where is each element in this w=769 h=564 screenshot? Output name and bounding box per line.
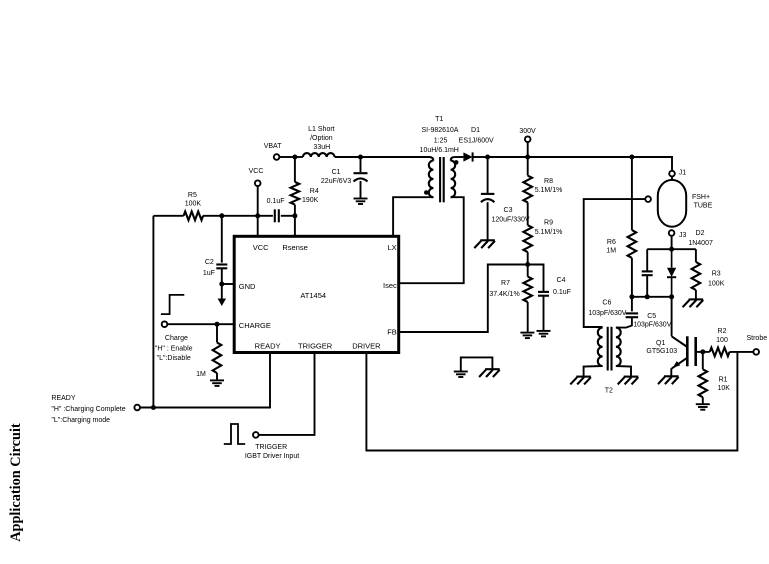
svg-text:100K: 100K <box>708 281 725 288</box>
wire R3 to ground <box>695 290 697 299</box>
transformer T1 secondary winding <box>451 161 456 198</box>
svg-text:103pF/630V: 103pF/630V <box>633 321 671 328</box>
svg-text:IGBT Driver Input: IGBT Driver Input <box>245 453 299 460</box>
svg-text:C4: C4 <box>557 277 566 284</box>
transistor Q1 GT5G103 <box>672 336 696 368</box>
svg-text:FSH+: FSH+ <box>692 194 710 201</box>
wire R9 to FB node <box>527 252 529 264</box>
junction GND node <box>219 282 224 287</box>
svg-text:1uF: 1uF <box>203 270 215 277</box>
terminal VCC <box>255 180 261 186</box>
Q1 emitter arrow <box>673 361 681 368</box>
svg-text:300V: 300V <box>519 128 536 135</box>
svg-text:C2: C2 <box>205 259 214 266</box>
svg-text:100: 100 <box>716 337 728 344</box>
svg-text:103pF/630V: 103pF/630V <box>588 310 626 317</box>
wire R4 to Rsense pin <box>294 205 296 236</box>
wire D1 to HV node <box>473 156 488 158</box>
resistor R1 <box>699 369 708 397</box>
inductor L1 <box>303 153 335 157</box>
svg-text:C6: C6 <box>602 299 611 306</box>
wire Q1 emitter to ground <box>670 368 673 375</box>
wire T1 secondary to D1 <box>455 156 464 158</box>
wire 1M to ground <box>216 373 218 380</box>
wire down to C5 <box>646 249 648 271</box>
wire down to C6 <box>631 297 633 312</box>
wire cap to Rsense node <box>281 215 295 217</box>
wire rail down to R8 <box>527 157 529 176</box>
wire GND stub to IC <box>222 283 233 285</box>
transformer T1 secondary entry <box>451 157 455 161</box>
svg-text:L1 Short: L1 Short <box>308 126 335 133</box>
svg-text:CHARGE: CHARGE <box>239 321 271 330</box>
ground earth of tie <box>454 372 468 378</box>
wire VBAT to node <box>279 156 295 158</box>
terminal J3 <box>669 230 675 236</box>
wire node down to R4 <box>294 157 296 182</box>
wire CHARGE input to pin <box>167 323 233 325</box>
wire R1 to ground <box>702 397 704 403</box>
phase dot T1 primary <box>424 190 429 195</box>
phase dot T1 secondary <box>454 160 459 165</box>
wire FB pin to divider node <box>399 265 528 333</box>
wire bottom row <box>632 296 672 298</box>
resistor R2 <box>710 348 730 357</box>
svg-text:R2: R2 <box>718 328 727 335</box>
wire T2 secondary top <box>584 326 603 328</box>
wire J1 to tube anode <box>671 176 673 180</box>
svg-text:190K: 190K <box>302 197 319 204</box>
resistor R6 <box>628 230 637 258</box>
capacitor 0.1uF (VCC decoupling) <box>275 209 279 222</box>
wire T1 secondary bottom to Isec pin <box>399 197 464 283</box>
wire down to 1M resistor <box>216 324 218 342</box>
ground under C4 <box>537 331 551 337</box>
ground under T2 secondary <box>570 377 591 385</box>
resistor R4 <box>291 182 300 205</box>
svg-text:Charge: Charge <box>165 335 188 342</box>
wire DRIVER pin to strobe node <box>366 352 737 451</box>
ground arrow below GND pin <box>218 284 226 306</box>
svg-text:READY: READY <box>255 342 281 351</box>
junction D1/C3 <box>485 155 490 160</box>
svg-text:R3: R3 <box>712 271 721 278</box>
capacitor C1 <box>354 173 368 181</box>
svg-text:/Option: /Option <box>310 135 333 142</box>
svg-text:R7: R7 <box>501 280 510 287</box>
capacitor C5 <box>642 271 653 275</box>
svg-text:5.1M/1%: 5.1M/1% <box>535 187 563 194</box>
wire trigger electrode to T2 secondary <box>584 199 646 327</box>
wire FB node down to R7 <box>527 265 529 277</box>
wire left vertical from R5 to READY node <box>152 216 154 408</box>
terminal VBAT <box>274 154 280 160</box>
wire rail to R5 <box>153 215 183 217</box>
svg-text:C3: C3 <box>504 207 513 214</box>
junction rail/VCC <box>255 213 260 218</box>
wire C1 to ground <box>360 181 362 198</box>
svg-text:22uF/6V3: 22uF/6V3 <box>321 178 351 185</box>
svg-text:R1: R1 <box>719 377 728 384</box>
wire C6 to T2 primary <box>616 317 632 327</box>
svg-text:D1: D1 <box>471 127 480 134</box>
svg-text:10uH/6.1mH: 10uH/6.1mH <box>420 147 459 154</box>
svg-text:J3: J3 <box>679 232 687 239</box>
svg-text:C1: C1 <box>332 169 341 176</box>
junction D2/Q1 <box>669 294 674 299</box>
ground under 1M <box>210 380 224 386</box>
svg-text:37.4K/1%: 37.4K/1% <box>489 291 519 298</box>
terminal TRIGGER input <box>253 432 259 438</box>
junction READY node <box>151 405 156 410</box>
svg-text:10K: 10K <box>717 385 730 392</box>
terminal READY output <box>134 405 140 411</box>
wire C3 to ground <box>487 202 489 239</box>
svg-text:TUBE: TUBE <box>694 202 713 209</box>
transformer T2 secondary winding <box>598 328 603 366</box>
wire rail down to R6 <box>631 157 633 230</box>
wire HV rail to J1 <box>488 157 672 171</box>
transformer T1 primary entry <box>430 157 434 161</box>
svg-text:VCC: VCC <box>253 243 269 252</box>
svg-text:5.1M/1%: 5.1M/1% <box>535 229 563 236</box>
ground under R3 <box>683 299 704 307</box>
terminal 300V <box>525 136 531 142</box>
wire L1 to C1 node <box>335 156 361 158</box>
wire C1 node to T1 primary <box>361 156 430 158</box>
svg-text:AT1454: AT1454 <box>300 291 326 300</box>
transformer T2 core <box>608 327 612 371</box>
wire T2 secondary to ground <box>584 366 603 376</box>
terminal CHARGE input <box>162 321 168 327</box>
transformer T2 primary winding <box>616 328 621 366</box>
wire R5 to 0.1uF cap <box>203 215 273 217</box>
svg-text:T1: T1 <box>435 116 443 123</box>
svg-text:Application Circuit: Application Circuit <box>8 423 24 542</box>
ground under R1 <box>696 404 710 410</box>
svg-text:1N4007: 1N4007 <box>688 240 713 247</box>
wire TRIGGER input to pin <box>258 353 314 435</box>
svg-text:"L":Disable: "L":Disable <box>157 355 191 362</box>
wire J3 to top row <box>671 236 673 250</box>
svg-text:0.1uF: 0.1uF <box>553 289 571 296</box>
svg-text:"H" :Charging Complete: "H" :Charging Complete <box>51 406 125 413</box>
svg-text:120uF/330V: 120uF/330V <box>491 217 529 224</box>
svg-text:"L":Charging mode: "L":Charging mode <box>51 417 110 424</box>
wire node down to C1 <box>360 157 362 172</box>
capacitor C4 <box>538 292 549 296</box>
terminal Strobe <box>753 349 759 355</box>
svg-text:SI-982610A: SI-982610A <box>422 127 459 134</box>
ground under R7 <box>520 333 534 339</box>
svg-text:LX: LX <box>388 243 397 252</box>
junction C1 node <box>358 155 363 160</box>
svg-text:Isec: Isec <box>383 281 397 290</box>
terminal tube trigger electrode <box>645 196 651 202</box>
svg-text:0.1uF: 0.1uF <box>267 198 285 205</box>
junction Rsense node <box>292 213 297 218</box>
svg-text:GT5G103: GT5G103 <box>646 348 677 355</box>
svg-text:R6: R6 <box>607 239 616 246</box>
svg-text:ES1J/600V: ES1J/600V <box>459 138 494 145</box>
terminal J1 <box>669 171 675 177</box>
svg-text:TRIGGER: TRIGGER <box>255 444 287 451</box>
capacitor C3 <box>481 194 495 202</box>
capacitor C2 <box>216 265 227 269</box>
wire C2 to GND node <box>221 268 223 284</box>
resistor R3 <box>692 262 701 290</box>
svg-text:R5: R5 <box>188 192 197 199</box>
junction R6 top <box>629 155 634 160</box>
transformer T1 core <box>440 157 444 202</box>
svg-text:33uH: 33uH <box>313 144 330 151</box>
svg-text:GND: GND <box>239 282 256 291</box>
wire gate node down to R1 <box>702 352 704 369</box>
wire HV node down to C3 <box>487 157 489 193</box>
svg-text:D2: D2 <box>696 230 705 237</box>
wire VCC down to IC pin <box>257 186 259 236</box>
ground under C3 <box>474 240 495 248</box>
wire T1 primary to LX pin <box>393 197 433 235</box>
wire R8 to R9 <box>527 202 529 225</box>
op-amp U1 AT1454 IC body <box>234 236 399 352</box>
svg-text:Q1: Q1 <box>656 340 665 347</box>
svg-text:"H" : Enable: "H" : Enable <box>155 346 193 353</box>
wire ground tie bracket <box>461 357 493 371</box>
wire FB node to C4 <box>528 265 544 292</box>
pulse waveform symbol (trigger) <box>224 424 245 444</box>
resistor 1M (charge pulldown) <box>213 343 222 374</box>
junction 300V <box>525 155 530 160</box>
wire C5 to bottom row <box>646 275 648 297</box>
step waveform symbol (charge enable) <box>161 295 184 314</box>
svg-text:DRIVER: DRIVER <box>352 342 381 351</box>
diode D1 <box>463 152 472 161</box>
wire T2 primary to ground <box>616 366 631 376</box>
junction rail/C2 <box>219 213 224 218</box>
resistor R9 <box>523 225 532 252</box>
diode D2 <box>667 249 676 297</box>
capacitor C6 <box>626 313 639 317</box>
svg-text:FB: FB <box>387 328 397 337</box>
wire C4 to ground <box>543 296 545 331</box>
svg-text:VBAT: VBAT <box>264 143 282 150</box>
resistor R8 <box>523 176 532 203</box>
svg-text:VCC: VCC <box>249 168 264 175</box>
junction gate/R1/R2 <box>700 349 705 354</box>
svg-text:C5: C5 <box>647 313 656 320</box>
svg-text:TRIGGER: TRIGGER <box>298 342 333 351</box>
svg-text:Rsense: Rsense <box>282 243 307 252</box>
ground under T2 primary <box>618 377 639 385</box>
wire READY node to pin <box>140 353 270 407</box>
svg-text:R4: R4 <box>310 188 319 195</box>
junction C5 bottom <box>645 294 650 299</box>
svg-text:1M: 1M <box>606 248 616 255</box>
junction VBAT node <box>292 155 297 160</box>
flash tube (FSH+ TUBE) <box>658 180 686 227</box>
wire top row C5-D2-R3 <box>647 248 696 250</box>
ground slant of tie <box>479 369 500 377</box>
wire R6 to C6 node <box>631 258 633 297</box>
wire R7 to ground <box>527 302 529 332</box>
wire node to L1 <box>295 156 303 158</box>
svg-text:1M: 1M <box>196 371 206 378</box>
resistor R7 <box>523 277 532 302</box>
svg-text:J1: J1 <box>679 170 687 177</box>
wire R2 to strobe terminal <box>730 351 754 353</box>
junction CHARGE/1M <box>215 322 220 327</box>
svg-text:Strobe: Strobe <box>746 335 767 342</box>
ground under C1 <box>354 199 368 205</box>
junction FB node <box>525 262 530 267</box>
wire top row down to R3 <box>695 249 697 262</box>
svg-text:R9: R9 <box>544 220 553 227</box>
ground under Q1 <box>658 376 679 384</box>
transformer T1 primary winding <box>429 161 434 198</box>
junction R6/C6 <box>629 294 634 299</box>
wire 300V terminal to rail <box>527 142 529 157</box>
resistor R5 <box>184 212 204 221</box>
wire Q1 gate to R2 <box>696 351 710 353</box>
svg-text:READY: READY <box>51 395 75 402</box>
svg-text:T2: T2 <box>605 388 613 395</box>
svg-text:1:25: 1:25 <box>434 138 448 145</box>
svg-text:R8: R8 <box>544 178 553 185</box>
wire junction down to C2 <box>221 216 223 263</box>
wire D2 node down to Q1 collector <box>671 297 673 337</box>
svg-text:100K: 100K <box>185 201 202 208</box>
junction J3 node <box>669 247 674 252</box>
